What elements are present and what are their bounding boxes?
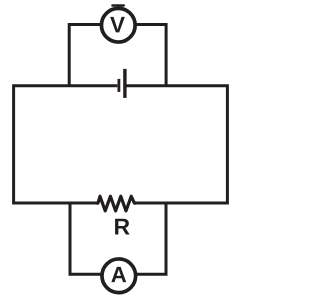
wire ammeter branch xyxy=(70,203,166,274)
ammeter A label xyxy=(111,267,126,282)
wire main loop right/bottom-right segment xyxy=(126,86,227,203)
resistor R label xyxy=(115,219,130,235)
battery B1 negative plate xyxy=(118,79,121,92)
ammeter A circle xyxy=(102,259,136,293)
battery B1 positive plate xyxy=(123,69,126,98)
resistor R1 zigzag xyxy=(96,196,136,211)
voltmeter V circle xyxy=(101,8,135,42)
voltmeter V label xyxy=(110,17,125,32)
tick above voltmeter xyxy=(112,4,123,6)
wire voltmeter branch xyxy=(69,25,166,86)
wire main loop left/top/bottom-left segment xyxy=(14,86,118,203)
